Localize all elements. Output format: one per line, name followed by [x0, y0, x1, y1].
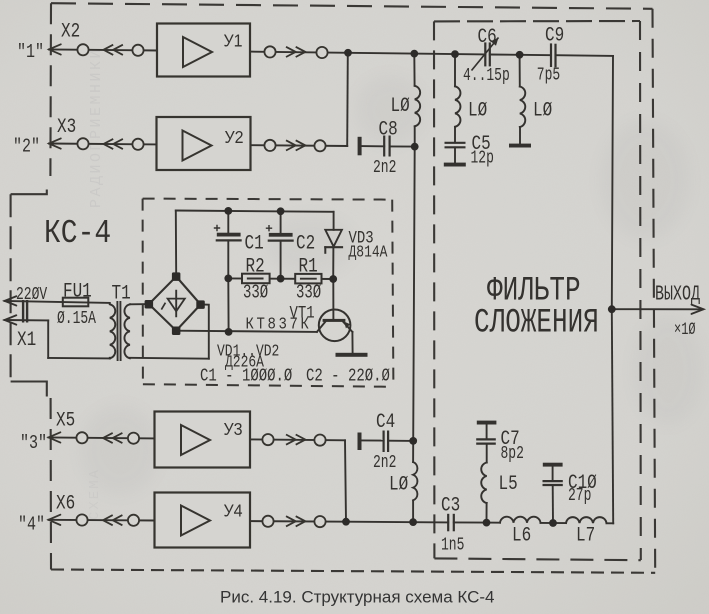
svg-text:C9: C9 [545, 24, 564, 47]
wire long vertical: row1 junction B down to L0 coil [413, 54, 415, 86]
inductor L0 (third, grounded) [520, 87, 525, 128]
inductor L7 [566, 517, 607, 523]
svg-text:Ø.15A: Ø.15A [57, 308, 96, 329]
svg-text:КС-4: КС-4 [44, 216, 111, 253]
bridge rectifier VD1..VD2 diamond [149, 277, 201, 331]
svg-text:L7: L7 [576, 524, 595, 547]
wire C7 plates to L5 [486, 444, 488, 463]
double chevron right row2 [286, 140, 305, 150]
wire PSU top rail [176, 211, 334, 212]
bridge inner diode [162, 291, 185, 317]
svg-text:R1: R1 [299, 255, 318, 278]
svg-text:27p: 27p [568, 485, 591, 506]
inverted ground over C10 [543, 463, 563, 467]
inductor L0 (second, with C5) [455, 86, 460, 127]
node bridge right vertex [196, 300, 205, 309]
wire L0 to C5 top plate [454, 127, 456, 143]
wire C6 right plate to C9 left plate [490, 54, 551, 57]
svg-text:У4: У4 [224, 501, 243, 521]
svg-text:У1: У1 [224, 31, 243, 51]
connector circle row4 a [76, 514, 87, 525]
svg-text:2n2: 2n2 [373, 452, 396, 473]
connector circle row2 c [264, 140, 275, 151]
wire bridge top vertex up to PSU top rail [175, 211, 177, 277]
svg-text:У3: У3 [224, 419, 243, 439]
svg-text:33Ø: 33Ø [296, 283, 321, 305]
capacitor C6 variable 4..15p plates [472, 38, 499, 71]
wire T1 primary bottom stub [109, 357, 111, 360]
input arrow row3 [49, 432, 61, 442]
node C2 top rail [277, 207, 285, 215]
svg-text:LØ: LØ [533, 99, 552, 122]
capacitor C2 electrolytic plates [269, 233, 293, 241]
svg-text:СЛОЖЕНИЯ: СЛОЖЕНИЯ [474, 305, 599, 343]
inverted ground over C7 [477, 421, 497, 425]
input arrow row2 [49, 138, 61, 148]
plus mark C1 [215, 226, 220, 231]
wire lower L0 bottom to row4 junction [412, 500, 414, 522]
zener diode VD3 [325, 230, 342, 253]
node row1 junction B [410, 50, 418, 58]
double chevron right row3 [286, 435, 305, 445]
svg-text:X6: X6 [56, 492, 75, 515]
transformer T1 core [117, 302, 120, 360]
node bridge left vertex [145, 300, 154, 309]
node VD3 R-rail [329, 275, 337, 283]
wire C4 bar to left plate [362, 439, 384, 441]
svg-text:Рис. 4.19. Структурная схема К: Рис. 4.19. Структурная схема КС-4 [220, 588, 495, 607]
wire R-rail [228, 277, 333, 280]
wire row4 junction to C3 left plate [346, 521, 448, 524]
svg-text:T1: T1 [112, 282, 131, 305]
wire T1 secondary bottom to right [130, 357, 209, 360]
wire row3 amp U3 output to corner [250, 438, 345, 441]
inductor L0 (lower, above row4) [413, 462, 417, 500]
wire L5 bottom to node E [486, 503, 488, 523]
wire node D down to third L0 [519, 55, 521, 87]
op-amp U3 triangle [181, 425, 210, 455]
op-amp U4 box [155, 493, 251, 548]
node C1 R-rail [224, 275, 232, 283]
svg-text:X1: X1 [17, 328, 36, 351]
svg-text:1n5: 1n5 [441, 535, 464, 556]
svg-text:КТ837К: КТ837К [246, 314, 312, 334]
connector circle row3 a [76, 432, 87, 443]
wire row4 input X6 to amp U4 [49, 519, 155, 522]
svg-text:У2: У2 [225, 127, 244, 147]
node lower L0 row4 junction [409, 518, 417, 526]
arrow 220V lower [5, 315, 17, 324]
arrow ВЫХОД output [692, 305, 704, 314]
wire vertical connecting row2 corner up to row1 junction A [346, 53, 349, 146]
connector circle row3 c [262, 434, 273, 445]
svg-text:33Ø: 33Ø [243, 283, 268, 305]
wire node C down to second L0 [454, 54, 456, 86]
svg-text:X2: X2 [61, 20, 80, 43]
svg-text:8p2: 8p2 [501, 443, 524, 464]
power-supply dashed box [143, 199, 394, 387]
node row1 junction C [451, 50, 459, 58]
svg-text:X5: X5 [56, 409, 75, 432]
transistor VT1 emitter lead with arrow [343, 322, 352, 332]
svg-text:4..15p: 4..15p [463, 65, 510, 86]
wire row2 amp U2 output to corner [251, 144, 347, 147]
wire row3 input X5 to amp U3 [49, 437, 155, 438]
svg-text:C4: C4 [376, 410, 395, 433]
op-amp U4 triangle [181, 506, 210, 536]
node F C10/L7 junction [549, 519, 557, 527]
wire vertical from top right bend down to output node [612, 56, 613, 309]
node C1 bottom rail [225, 328, 233, 336]
wire lower lead to T1 primary bottom [48, 357, 110, 360]
wire PSU bottom rail from bridge to VT1 [176, 331, 317, 332]
capacitor C4 2n2 plates and bar terminal [358, 431, 389, 453]
svg-text:X3: X3 [57, 115, 76, 138]
ground under third L0 [509, 144, 531, 148]
node bridge bottom vertex [172, 327, 181, 336]
wire C5 bottom plate to ground [454, 147, 456, 162]
wire VD3 to R-rail [332, 247, 334, 279]
node row1 junction A [344, 49, 352, 57]
wire C1 node down to bottom rail [227, 278, 229, 332]
svg-text:"1": "1" [17, 43, 44, 64]
svg-text:FU1: FU1 [63, 280, 92, 303]
node C2 R-rail [277, 275, 285, 283]
wire vertical connecting row3 corner down to row4 junction [345, 440, 346, 521]
svg-text:×1Ø: ×1Ø [674, 319, 696, 340]
capacitor C7 8p2 plates [476, 439, 496, 443]
double chevron left row2 [104, 139, 123, 149]
transformer T1 primary winding [110, 304, 115, 358]
inductor L6 [500, 517, 541, 523]
wire vertical right bend up to output node [612, 309, 613, 523]
wire R-rail node down to VT1 base [332, 279, 334, 319]
svg-text:Д814А: Д814А [349, 242, 389, 262]
wire node E to L6 [487, 522, 501, 524]
connector circle row4 b [128, 515, 139, 526]
svg-text:R2: R2 [246, 255, 265, 278]
svg-text:СХЕМА: СХЕМА [87, 468, 103, 520]
op-amp U2 triangle [183, 131, 212, 161]
wire L7 to right bend [607, 522, 614, 524]
svg-text:C6: C6 [478, 25, 497, 48]
wire C8 bar to left plate [361, 145, 384, 147]
resistor R1 body [295, 274, 321, 284]
connector circle row1 a [77, 44, 88, 55]
svg-text:L5: L5 [499, 472, 518, 495]
connector circle row2 b [132, 139, 143, 150]
connector circle row4 d [314, 516, 325, 527]
wire row1 amp U1 output to junction A [250, 52, 348, 53]
double chevron right row1 [286, 47, 305, 57]
svg-text:7p5: 7p5 [537, 65, 560, 86]
svg-text:С2 - 22Ø.Ø: С2 - 22Ø.Ø [306, 365, 390, 386]
svg-text:РАДИОПРИЕМНИКИ: РАДИОПРИЕМНИКИ [88, 47, 105, 208]
inductor L5 [481, 463, 486, 504]
inductor L0 (first, on long vertical) [415, 86, 420, 127]
node C1 top rail [224, 207, 232, 215]
transistor VT1 circle [319, 310, 351, 342]
wire C1 bottom to R-rail [227, 240, 229, 278]
connector circle row3 b [128, 433, 139, 444]
filter (ФИЛЬТР СЛОЖЕНИЯ) dashed box [434, 21, 641, 560]
double chevron left row1 [104, 45, 123, 55]
wire row4 amp U4 output to junction [250, 520, 346, 523]
svg-text:2n2: 2n2 [373, 157, 396, 178]
connector circle row3 d [314, 435, 325, 446]
wire 220V upper lead through fuse to T1 primary [5, 301, 110, 303]
double chevron left row4 [103, 515, 122, 525]
transformer T1 secondary winding [124, 304, 129, 358]
double chevron right row4 [286, 516, 305, 526]
ground under C5 [444, 163, 466, 167]
wire lower lead down [47, 320, 49, 358]
wire top rail right end down to VD3 [333, 212, 335, 230]
node bridge top vertex [172, 272, 181, 281]
wire L6 to node F [541, 522, 567, 524]
svg-text:"3": "3" [20, 434, 47, 455]
capacitor C5 12p plates [445, 143, 466, 148]
connector circle row2 a [77, 138, 88, 149]
wire C2 branch from top rail [280, 211, 282, 233]
transistor VT1 collector lead [317, 322, 325, 332]
wire C10 ground-bar to plates [552, 467, 554, 481]
ground under VT1 [336, 353, 368, 357]
wire row1 junction A to C6 left plate [348, 53, 485, 55]
wire T1 secondary top to bridge left vertex [130, 303, 149, 305]
svg-text:"4": "4" [18, 515, 45, 536]
wire up to bridge right vertex [201, 305, 209, 359]
wire C4 junction down to lower L0 coil [412, 441, 414, 462]
node output junction [608, 305, 616, 313]
input arrow row1 [49, 44, 61, 54]
wire C1 branch from top rail [227, 211, 229, 233]
svg-text:L6: L6 [512, 524, 531, 547]
transistor VT1 base bar [323, 319, 346, 322]
capacitor C1 electrolytic plates [217, 233, 241, 241]
wire C10 plates to node F [552, 485, 554, 523]
connector circle row4 c [262, 516, 273, 527]
connector circle row1 c [264, 46, 275, 57]
wire C7 ground-bar to plates [486, 424, 488, 439]
arrow 220V upper [5, 296, 17, 305]
node row1 junction D [516, 51, 524, 59]
svg-text:22ØV: 22ØV [16, 284, 48, 305]
wire emitter down to ground [351, 332, 353, 353]
plus mark C2 [267, 226, 272, 231]
capacitor C9 7p5 plates [551, 43, 556, 67]
node row4 junction [342, 518, 350, 526]
fuse FU1 body [63, 298, 89, 307]
op-amp U1 triangle [183, 37, 212, 67]
svg-text:ВЫХОД: ВЫХОД [655, 283, 700, 306]
svg-text:C1: C1 [245, 232, 264, 255]
capacitor C10 27p plates [543, 481, 563, 485]
svg-text:C2: C2 [296, 232, 315, 255]
svg-text:LØ: LØ [468, 99, 487, 122]
wire C8 right plate to junction [390, 145, 415, 147]
wire C9 right plate to right bend [556, 54, 614, 57]
wire L0 bottom to C8 junction [414, 126, 416, 146]
svg-text:С1 - 1ØØØ.Ø: С1 - 1ØØØ.Ø [200, 365, 293, 386]
capacitor C3 1n5 plates [448, 514, 454, 532]
connector circle row1 b [132, 45, 143, 56]
double chevron left row3 [103, 433, 122, 443]
svg-text:LØ: LØ [389, 473, 408, 496]
svg-text:LØ: LØ [391, 94, 410, 117]
connector circle row2 d [314, 140, 325, 151]
node C4 junction [409, 437, 417, 445]
wire C2 bottom to R-rail [280, 241, 282, 279]
svg-text:C8: C8 [379, 118, 398, 141]
wire C4 right plate to junction [388, 440, 413, 442]
wire C3 right plate to node E [454, 521, 487, 523]
wire 220V lower lead [5, 319, 49, 321]
svg-text:"2": "2" [13, 137, 40, 158]
node E L5/L6 junction [483, 519, 491, 527]
op-amp U3 box [155, 412, 251, 468]
node C8 junction [411, 143, 419, 151]
svg-text:12p: 12p [471, 148, 494, 169]
capacitor C8 2n2 plates and bar terminal [358, 136, 390, 157]
svg-text:C3: C3 [441, 494, 460, 517]
wire long vertical: C8 junction down to C4 junction [413, 147, 415, 441]
op-amp U1 box [157, 24, 250, 77]
connector circle row1 d [316, 47, 327, 58]
wire third L0 bottom to ground [519, 127, 521, 144]
input arrow row4 [49, 515, 61, 525]
resistor R2 body [242, 274, 270, 284]
wire output node to arrow [612, 308, 703, 310]
wire row1 input X2 to amp U1 [49, 49, 157, 50]
mains plug X1 bars [22, 300, 28, 323]
op-amp U2 box [157, 117, 251, 170]
wire row2 input X3 to amp U2 [49, 143, 157, 146]
